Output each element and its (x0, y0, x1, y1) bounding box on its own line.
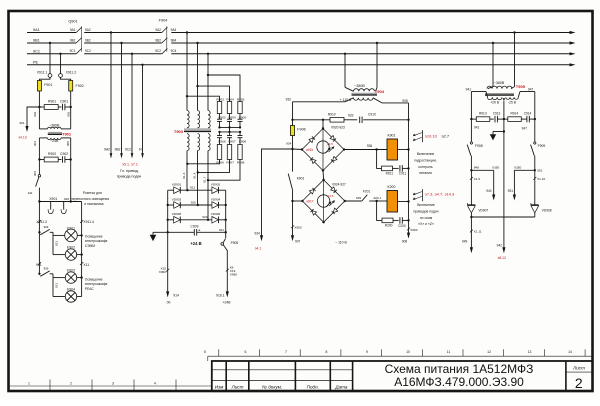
svg-text:904: 904 (33, 141, 37, 146)
svg-text:908: 908 (402, 239, 408, 243)
svg-text:F902: F902 (76, 84, 84, 88)
svg-text:F201: F201 (363, 189, 371, 193)
svg-text:и917: и917 (306, 200, 313, 204)
svg-text:9: 9 (366, 350, 368, 354)
svg-text:Х350: Х350 (492, 165, 500, 169)
wire X350 right (514, 169, 534, 171)
svg-text:949: 949 (462, 239, 468, 243)
wire to VD907 (470, 170, 472, 205)
svg-text:3: 3 (112, 381, 114, 385)
svg-text:R907: R907 (226, 160, 234, 164)
svg-text:F908: F908 (475, 144, 483, 148)
svg-text:941: 941 (474, 125, 480, 129)
svg-text:942: 942 (497, 244, 503, 248)
svg-text:947: 947 (522, 126, 528, 130)
svg-text:Х960: Х960 (230, 272, 238, 276)
wire lamp group 1 (52, 232, 54, 254)
svg-text:Освещение: Освещение (85, 278, 103, 282)
svg-text:2: 2 (575, 375, 583, 391)
wire F906 to node (292, 136, 294, 150)
fuse F901 (37, 81, 41, 92)
svg-text:921: 921 (190, 186, 195, 190)
svg-text:929: 929 (202, 215, 207, 219)
capacitor C903 (219, 114, 221, 120)
svg-text:9С2: 9С2 (125, 148, 131, 152)
svg-text:С903: С903 (218, 116, 226, 120)
svg-text:5: 5 (204, 350, 206, 354)
wire X950/907 (292, 201, 294, 237)
connector X911.1 (48, 74, 52, 78)
svg-text:питания: питания (419, 171, 432, 175)
node R902 row left (38, 158, 40, 160)
svg-text:VD902: VD902 (211, 183, 221, 187)
svg-text:VD908: VD908 (542, 209, 552, 213)
svg-text:9В2: 9В2 (85, 38, 91, 42)
svg-text:+29 В: +29 В (490, 100, 500, 104)
svg-text:F906: F906 (297, 128, 305, 132)
svg-text:916.1: 916.1 (216, 293, 225, 297)
switch S911 (38, 175, 40, 177)
capacitor C901 (62, 104, 64, 111)
node R913 left (470, 118, 472, 120)
bus arrows right (570, 31, 576, 67)
svg-text:и паяльника: и паяльника (84, 202, 103, 206)
svg-text:Х911.4: Х911.4 (83, 220, 94, 224)
capacitor C907 (229, 132, 231, 136)
ground symbol (152, 232, 154, 235)
svg-text:9В1: 9В1 (33, 39, 40, 43)
relay coil K200 (387, 191, 398, 213)
svg-text:F901: F901 (44, 83, 52, 87)
svg-text:9А1: 9А1 (70, 28, 76, 32)
resistor R905 (238, 102, 242, 114)
switch F909 (534, 142, 536, 144)
wire 941 top (486, 92, 488, 98)
wire 9C4 drop (207, 53, 209, 55)
wire lamp rail left (38, 202, 40, 266)
svg-text:903: 903 (67, 111, 71, 116)
svg-text:911: 911 (28, 191, 33, 195)
svg-text:С911: С911 (399, 171, 407, 175)
svg-text:901: 901 (19, 121, 24, 125)
svg-text:РЕАС: РЕАС (85, 287, 95, 291)
snubber R911 (377, 150, 382, 169)
svg-text:906: 906 (33, 171, 37, 176)
svg-text:9С2: 9С2 (155, 49, 161, 53)
socket X901 pin 1 (50, 202, 52, 210)
svg-text:Т905: Т905 (516, 84, 526, 89)
svg-text:№ докум.: № докум. (262, 385, 282, 390)
node K200 input (375, 200, 377, 202)
node bridge2 left (291, 200, 293, 202)
capacitor C908 (239, 132, 241, 136)
RC network rail 2 (220, 131, 241, 133)
svg-text:04.5: 04.5 (327, 142, 333, 146)
svg-text:R908: R908 (237, 160, 245, 164)
svg-text:Х960: Х960 (410, 228, 418, 232)
transformer T901 secondary (39, 137, 47, 139)
capacitor C909 (193, 229, 195, 236)
svg-text:9С2: 9С2 (85, 49, 91, 53)
switch lamp group 1 (38, 231, 40, 233)
cross-ref arrows K200 (422, 189, 424, 201)
svg-text:13: 13 (528, 350, 532, 354)
svg-text:+24В: +24В (222, 301, 231, 305)
svg-text:Q901: Q901 (68, 20, 77, 24)
svg-text:10: 10 (406, 350, 410, 354)
capacitor C905 (239, 114, 241, 120)
svg-text:Изм: Изм (215, 385, 224, 390)
svg-text:~ 110 В: ~ 110 В (335, 240, 347, 244)
wire bridge2 left (293, 200, 303, 202)
svg-text:С904: С904 (228, 116, 236, 120)
svg-text:С909: С909 (191, 224, 199, 228)
connector X11 right (80, 262, 83, 265)
svg-text:932: 932 (286, 98, 292, 102)
svg-text:909: 909 (44, 267, 49, 271)
svg-text:Лист: Лист (572, 365, 585, 370)
svg-text:по осям: по осям (420, 216, 433, 220)
svg-text:925: 925 (191, 200, 196, 204)
svg-text:931: 931 (219, 228, 224, 232)
dc minus rail (153, 231, 194, 233)
wire R907 to phase 2 (198, 160, 230, 173)
text Гл. привод (117, 169, 142, 179)
resistor R903 (217, 102, 221, 114)
svg-text:э2.7: э2.7 (442, 133, 450, 138)
wire 906 (38, 160, 40, 175)
rectifier row diodes VD901 VD902 (168, 189, 174, 191)
svg-text:00: 00 (167, 301, 171, 305)
svg-text:11: 11 (447, 350, 451, 354)
svg-text:F909: F909 (538, 144, 546, 148)
svg-text:VD903: VD903 (172, 197, 182, 201)
svg-text:F904: F904 (159, 19, 168, 23)
svg-text:гидростанции,: гидростанции, (414, 159, 437, 163)
svg-text:2: 2 (70, 381, 72, 385)
tap to R904 (196, 85, 198, 87)
rectifier row diodes VD903 VD904 (168, 204, 174, 206)
rectifier right rail (225, 190, 227, 232)
capacitor C904 (229, 114, 231, 120)
wire VD join (470, 213, 472, 217)
relay coil K901 (387, 139, 398, 160)
svg-text:э5.1, э7.1: э5.1, э7.1 (122, 163, 138, 167)
svg-text:9А4: 9А4 (171, 28, 177, 32)
svg-text:6: 6 (245, 350, 247, 354)
svg-text:+24 В: +24 В (190, 241, 201, 246)
svg-text:907: 907 (295, 239, 301, 243)
wire left rail upper (470, 119, 472, 142)
snubber C911 (399, 165, 401, 172)
svg-text:~24В: ~24В (50, 139, 59, 143)
diode bridge VD920-VD923 (302, 129, 344, 171)
svg-text:9А2: 9А2 (85, 28, 91, 32)
resistor R902 (39, 159, 44, 161)
node R914 right (534, 118, 536, 120)
rectifier phase nodes (186, 189, 188, 191)
svg-text:4: 4 (154, 381, 156, 385)
node R901 row right (70, 106, 72, 108)
text cabinet lighting 2 (85, 278, 108, 291)
switch F201 (362, 195, 368, 201)
svg-text:Освещение: Освещение (85, 235, 103, 239)
fuse F906 (290, 126, 294, 136)
Лист cell (572, 365, 585, 391)
svg-text:Включение: Включение (417, 203, 435, 207)
svg-text:R910: R910 (328, 112, 336, 116)
title block grid (212, 361, 593, 391)
svg-text:С913: С913 (493, 112, 501, 116)
svg-text:R902: R902 (48, 152, 56, 156)
svg-text:~380В: ~380В (49, 123, 60, 127)
svg-text:R905: R905 (237, 97, 245, 101)
svg-text:С908: С908 (239, 140, 247, 144)
svg-text:9В2: 9В2 (155, 38, 161, 42)
dc plus rail (197, 231, 226, 233)
wire X911.2 to F902 (61, 77, 71, 80)
wire bus 9C (27, 53, 76, 55)
svg-text:VD907: VD907 (478, 209, 488, 213)
svg-text:К200: К200 (388, 185, 396, 189)
wire F901 down (38, 91, 40, 107)
transformer T904 core (352, 92, 378, 94)
rectifier row diodes VD905 VD906 (168, 219, 174, 221)
node 934 (291, 148, 293, 150)
wire 908 (408, 103, 410, 234)
wire 908 top (373, 98, 382, 103)
svg-text:Розетка для: Розетка для (83, 191, 102, 195)
svg-text:14: 14 (568, 350, 572, 354)
svg-text:9В1: 9В1 (70, 38, 76, 42)
connector X11 left (38, 262, 41, 265)
capacitor C906 (219, 132, 221, 136)
svg-text:С905: С905 (239, 116, 247, 120)
wire 901 to sheet 4 (27, 107, 39, 128)
svg-text:933: 933 (348, 114, 354, 118)
svg-text:Х960: Х960 (159, 270, 167, 274)
svg-text:РЕ: РЕ (33, 60, 39, 64)
wire 916.1 output (226, 250, 228, 292)
wire 9C4 to T904 (344, 53, 346, 55)
svg-text:Подп.: Подп. (307, 385, 319, 390)
svg-text:9В2: 9В2 (115, 148, 121, 152)
connector X911.4 (80, 220, 83, 223)
svg-text:Х1.9: Х1.9 (474, 177, 481, 181)
wire bridge1 to K901 (344, 149, 387, 151)
svg-text:~380В: ~380В (354, 84, 365, 88)
svg-text:934: 934 (286, 141, 291, 145)
switch Q901 (68, 20, 91, 54)
svg-text:1: 1 (28, 381, 30, 385)
wire 9B4 drop (196, 42, 198, 44)
svg-text:контроль: контроль (418, 165, 433, 169)
snubber R200 (377, 201, 382, 220)
svg-text:935: 935 (356, 196, 361, 200)
wire 904 (38, 138, 40, 160)
svg-text:Х350: Х350 (514, 165, 522, 169)
switch F904 (155, 19, 177, 54)
svg-text:9С4: 9С4 (171, 49, 177, 53)
svg-text:V920-923: V920-923 (331, 126, 345, 130)
wire bridge1 to bridge2 (322, 171, 325, 180)
svg-text:Х1.7: Х1.7 (203, 176, 207, 183)
svg-text:А16МФЗ.479.000.Э3.90: А16МФЗ.479.000.Э3.90 (394, 375, 524, 389)
node R902 row right (70, 158, 72, 160)
wire 9B4 to T905 (492, 42, 494, 44)
wire 9A4 to T905 (513, 31, 515, 33)
wire phase 1 to rectifier (186, 151, 188, 191)
wire right rail upper (534, 119, 536, 142)
svg-text:930: 930 (64, 197, 69, 201)
svg-text:9С1: 9С1 (33, 49, 40, 53)
svg-text:R913: R913 (479, 112, 487, 116)
transformer T903 primary (187, 111, 189, 128)
svg-text:Лист: Лист (231, 385, 244, 390)
socket feed wire (39, 201, 81, 203)
svg-text:С200: С200 (398, 224, 406, 228)
wire R906 to phase 1 (187, 160, 219, 164)
resistor R908 (238, 145, 242, 160)
snubber C200 (399, 217, 401, 224)
svg-text:э8.12: э8.12 (498, 256, 506, 260)
svg-text:Гл. привод,: Гл. привод, (120, 169, 139, 173)
transformer T904 primary (354, 89, 375, 92)
title block column labels (215, 385, 348, 390)
svg-text:С902: С902 (60, 152, 68, 156)
ground T905 (493, 131, 504, 133)
svg-text:Х911.3: Х911.3 (36, 220, 47, 224)
wire center tap down (503, 101, 505, 132)
svg-text:-25 В: -25 В (508, 100, 517, 104)
svg-text:электрошкафа: электрошкафа (85, 282, 108, 286)
wire phase 3 to rectifier (207, 151, 209, 220)
switch F908 (470, 142, 472, 144)
svg-text:Х950: Х950 (294, 226, 302, 230)
wire F902 down (70, 91, 72, 107)
connector X1.11 (470, 230, 473, 233)
wire X911.1 to F901 (39, 77, 50, 80)
wire phase 2 to rectifier (197, 151, 199, 205)
wire 9B4 to T904 (376, 42, 378, 44)
RC network rail 1 (220, 126, 241, 128)
svg-text:V924-927: V924-927 (332, 183, 346, 187)
svg-text:R901: R901 (48, 100, 56, 104)
svg-text:Х911.2: Х911.2 (66, 71, 77, 75)
svg-text:R200: R200 (385, 224, 393, 228)
transformer T905 secondary (488, 97, 503, 99)
svg-text:Х1.10: Х1.10 (537, 177, 545, 181)
wire 947 top (518, 92, 520, 98)
svg-text:913: 913 (55, 283, 59, 288)
svg-text:R903: R903 (216, 97, 224, 101)
svg-text:905: 905 (66, 141, 70, 146)
svg-text:7: 7 (285, 350, 287, 354)
transformer T903 core (184, 128, 211, 130)
svg-text:«Х» и «Z»: «Х» и «Z» (418, 222, 434, 226)
transformer T904 secondary (354, 98, 374, 100)
svg-text:909: 909 (44, 225, 49, 229)
bus labels left (33, 28, 40, 64)
wire 932 (345, 98, 354, 102)
svg-text:приводов подач: приводов подач (413, 210, 438, 214)
wire bridge1 left (293, 148, 303, 151)
switch F905 (225, 232, 227, 238)
wire lamp group 2 (52, 274, 54, 297)
svg-text:э10.10: э10.10 (425, 133, 438, 138)
wire R908 to phase 3 (208, 160, 240, 181)
svg-text:940: 940 (486, 189, 492, 193)
node center tap (503, 118, 505, 120)
capacitor C914 (526, 116, 528, 123)
text hydrostation (414, 152, 437, 175)
resistor R914 (504, 118, 508, 120)
zener VD908 (531, 204, 539, 206)
sheet zone ruler bottom-left (zones 1-4) (9, 380, 212, 392)
svg-text:F905: F905 (231, 241, 239, 245)
wire to K200 (377, 200, 387, 202)
resistor R907 (227, 145, 231, 160)
socket X901 pin 2 (63, 202, 65, 210)
svg-text:9В4: 9В4 (171, 38, 177, 42)
svg-text:Включение: Включение (417, 152, 435, 156)
diode bridge VD924-VD927 (302, 180, 344, 222)
wire bus 9B (27, 42, 76, 44)
svg-text:04.6: 04.6 (328, 194, 334, 198)
wire bus 9A (27, 32, 76, 34)
svg-text:С914: С914 (524, 112, 532, 116)
svg-text:VD904: VD904 (211, 197, 221, 201)
svg-text:Т904: Т904 (375, 89, 385, 94)
wire X350 left (471, 169, 493, 171)
resistor R904 (227, 102, 231, 114)
text feed drives (413, 203, 438, 226)
svg-text:934: 934 (254, 232, 260, 236)
capacitor C910 (359, 117, 361, 124)
svg-text:908: 908 (402, 99, 408, 103)
svg-text:привода подач: привода подач (117, 175, 142, 179)
svg-text:9А2: 9А2 (155, 28, 161, 32)
wire 934 branch (262, 149, 293, 237)
svg-text:К901: К901 (297, 177, 305, 181)
wire 9A4 drop (186, 31, 188, 33)
text cabinet lighting 1 (85, 235, 108, 248)
svg-text:Х11: Х11 (83, 263, 89, 267)
text socket purpose (64, 191, 109, 206)
svg-text:С901: С901 (60, 100, 68, 104)
svg-text:8: 8 (326, 350, 328, 354)
switch lamp group 2 (38, 273, 40, 275)
contact K901 (292, 149, 294, 172)
wire to VD908 (534, 170, 536, 205)
wire 9C1 to X911.2 (59, 53, 61, 55)
svg-text:947: 947 (528, 87, 534, 91)
transformer T901 core (48, 132, 62, 134)
svg-text:914: 914 (173, 293, 179, 297)
svg-text:902: 902 (33, 111, 37, 116)
tap to R905 (207, 74, 209, 76)
svg-text:С907: С907 (228, 140, 236, 144)
wire 914 output (167, 232, 169, 292)
svg-text:936: 936 (367, 144, 373, 148)
node 948 (470, 169, 472, 171)
node snubber 910 (291, 119, 293, 121)
transformer T903 secondary (187, 134, 189, 151)
svg-text:~380В: ~380В (494, 81, 505, 85)
svg-text:R911: R911 (386, 171, 394, 175)
svg-text:Х1.3: Х1.3 (182, 172, 186, 179)
svg-text:9С1: 9С1 (70, 49, 76, 53)
